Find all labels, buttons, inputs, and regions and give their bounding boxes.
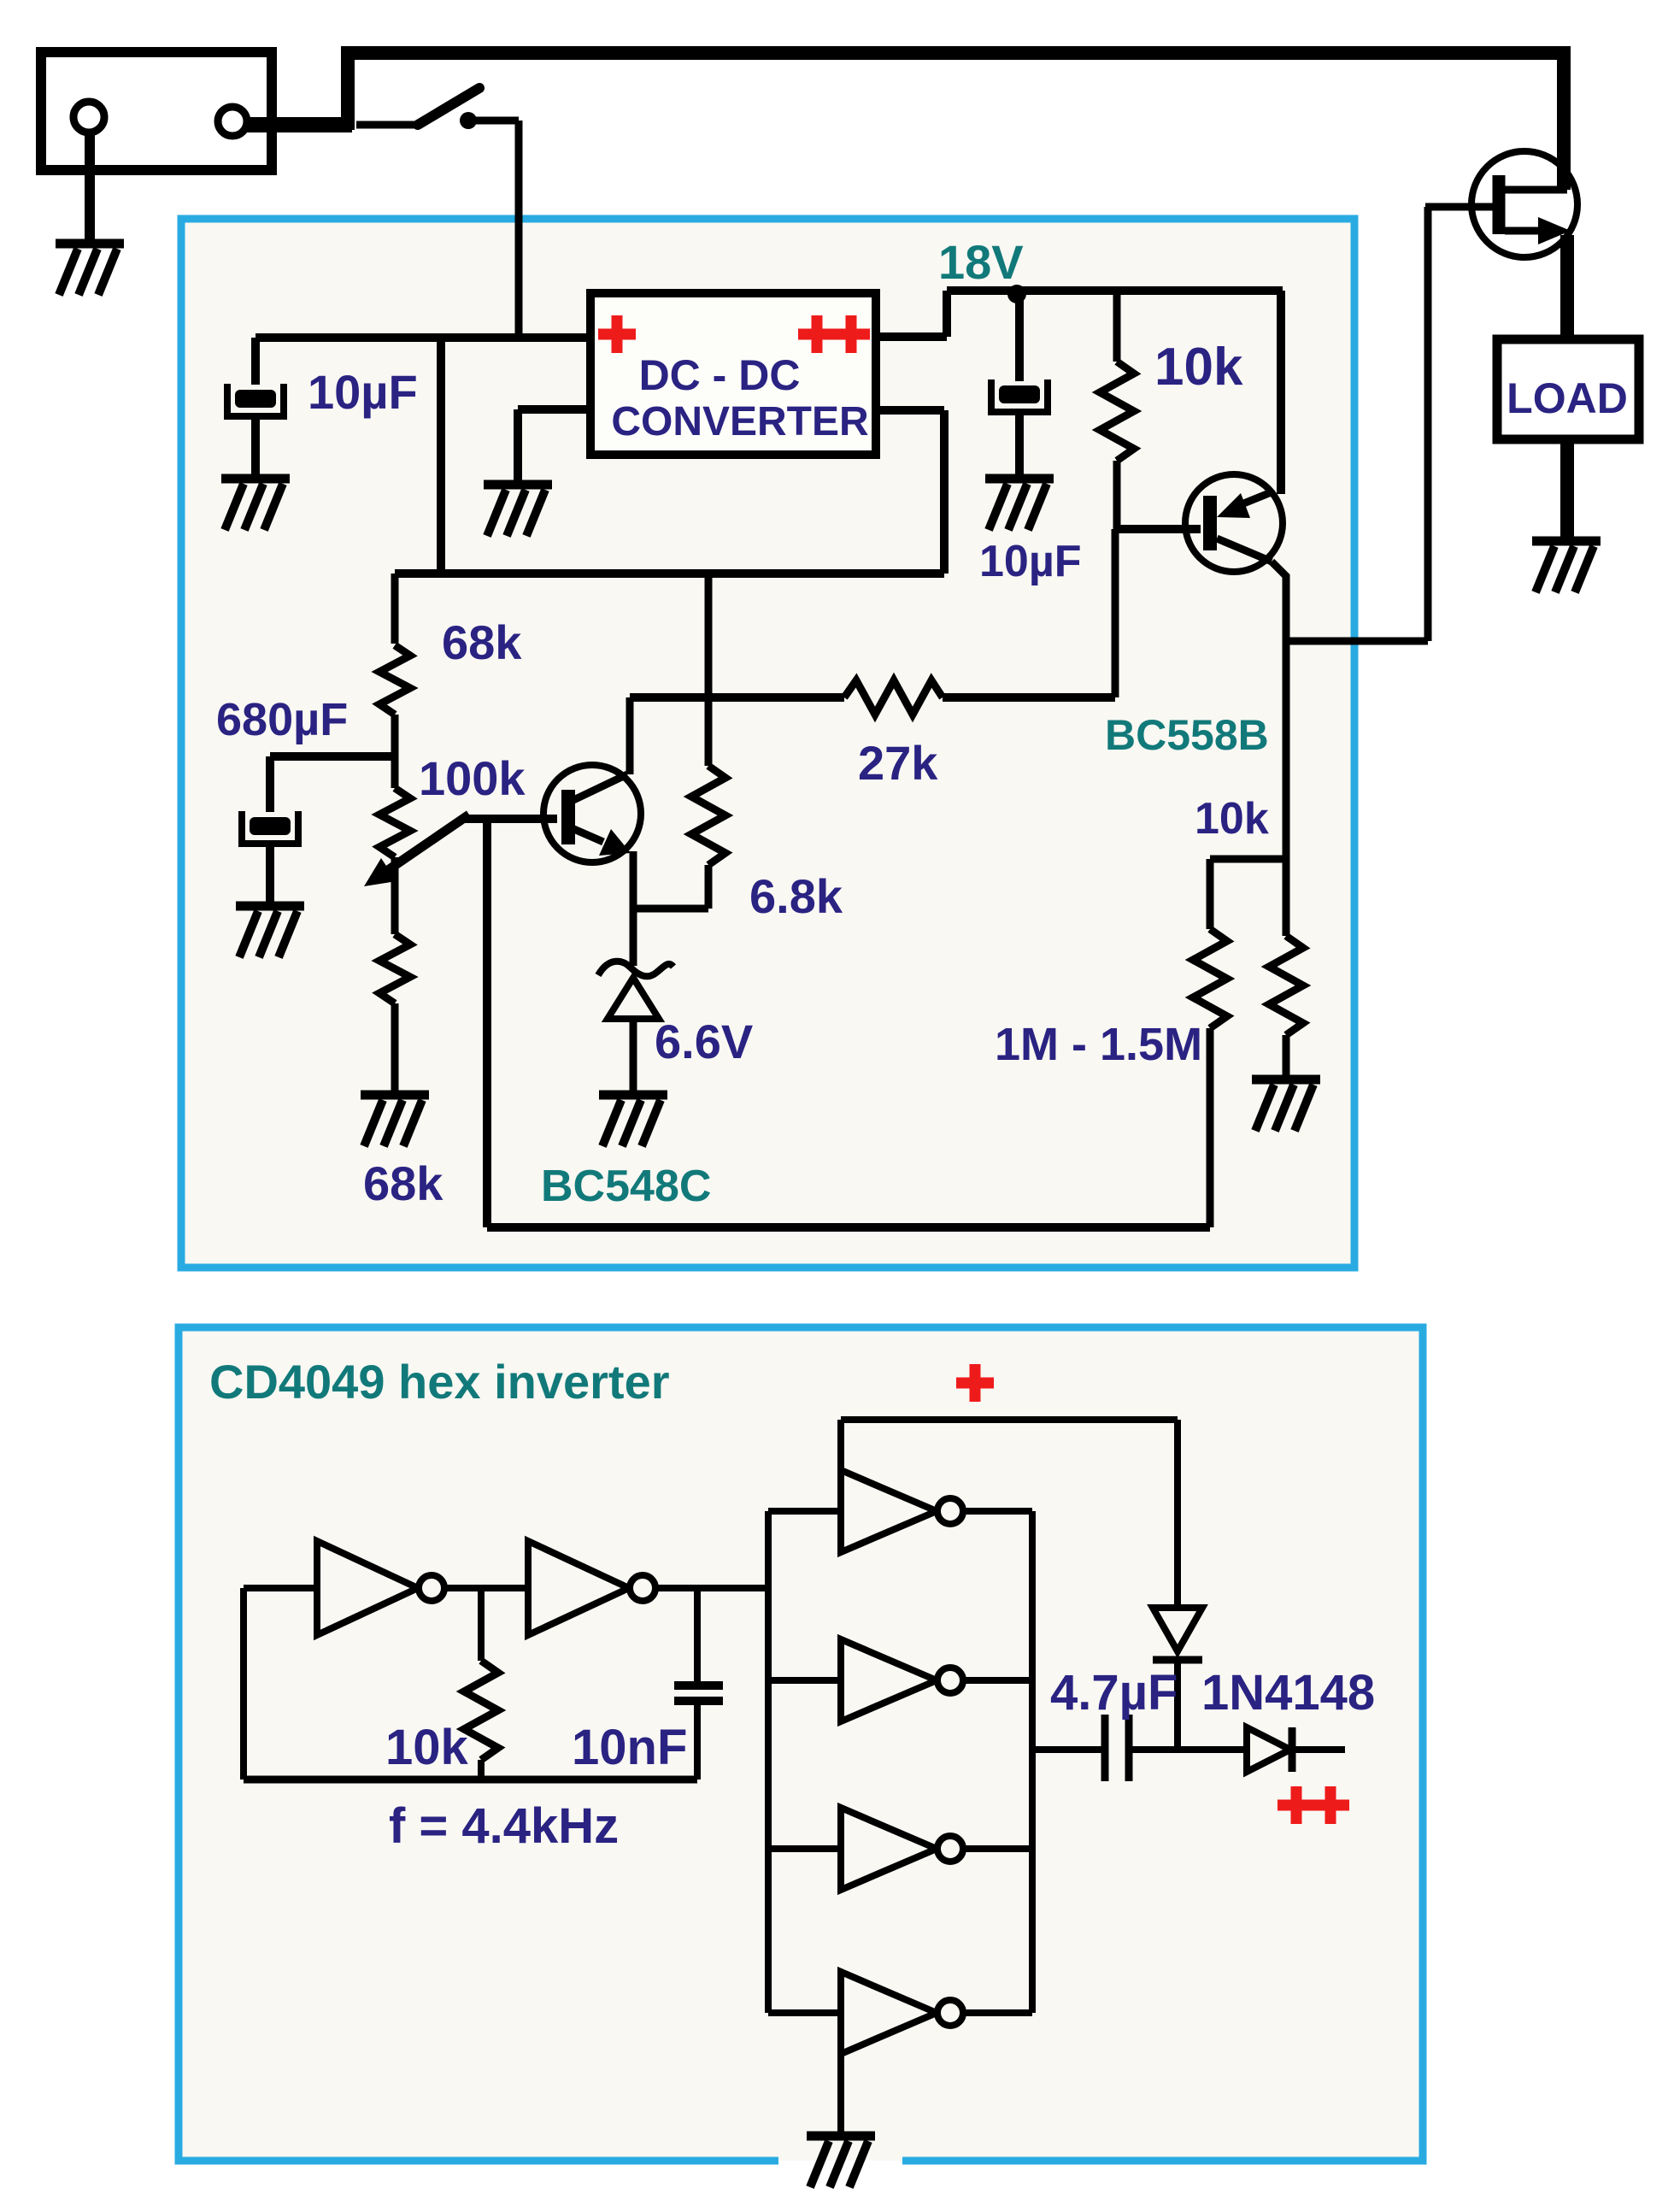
svg-text:BC558B: BC558B: [1105, 711, 1269, 759]
svg-text:68k: 68k: [442, 615, 522, 669]
svg-text:10nF: 10nF: [572, 1720, 687, 1775]
svg-text:6.8k: 6.8k: [749, 869, 843, 923]
svg-text:1N4148: 1N4148: [1201, 1665, 1375, 1721]
svg-text:BC548C: BC548C: [541, 1162, 711, 1211]
svg-text:LOAD: LOAD: [1507, 374, 1628, 422]
svg-text:4.7µF: 4.7µF: [1050, 1665, 1178, 1721]
svg-text:DC - DC: DC - DC: [639, 351, 801, 399]
svg-text:680µF: 680µF: [216, 694, 348, 745]
svg-text:10k: 10k: [1154, 338, 1243, 397]
svg-text:10k: 10k: [1195, 794, 1269, 844]
svg-text:10µF: 10µF: [979, 537, 1082, 586]
svg-text:1M - 1.5M: 1M - 1.5M: [995, 1019, 1202, 1070]
svg-text:CONVERTER: CONVERTER: [611, 399, 868, 444]
svg-text:18V: 18V: [938, 235, 1024, 289]
svg-text:f = 4.4kHz: f = 4.4kHz: [389, 1798, 619, 1854]
svg-text:27k: 27k: [858, 736, 938, 790]
svg-text:100k: 100k: [419, 751, 526, 805]
svg-text:68k: 68k: [363, 1156, 443, 1210]
svg-text:10k: 10k: [385, 1720, 469, 1775]
svg-text:6.6V: 6.6V: [655, 1015, 753, 1068]
svg-text:10µF: 10µF: [308, 365, 418, 419]
svg-text:CD4049 hex inverter: CD4049 hex inverter: [209, 1355, 670, 1409]
